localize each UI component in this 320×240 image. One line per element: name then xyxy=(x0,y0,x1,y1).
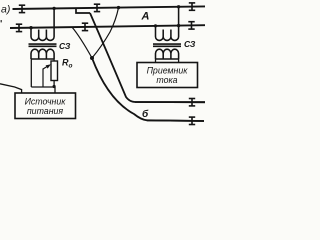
node dot T1 left terminal xyxy=(29,26,32,29)
svg-text:СЗ: СЗ xyxy=(184,39,196,49)
insulator top-middle xyxy=(94,4,100,12)
insulator B-upper-right xyxy=(189,98,195,106)
cable P2 to lower Б line xyxy=(92,58,204,121)
svg-text:Rо: Rо xyxy=(62,58,73,70)
wire secondary left down xyxy=(30,59,32,87)
box: Источник питания xyxy=(15,93,76,119)
node dot on top rail at branch xyxy=(117,6,120,9)
box: Приемник тока xyxy=(137,63,198,88)
svg-text:а): а) xyxy=(1,4,10,16)
svg-text:А: А xyxy=(141,11,150,23)
transformer T2 secondary winding xyxy=(156,49,179,59)
insulator bottom-right xyxy=(188,21,194,29)
insulator bottom-left xyxy=(16,24,22,32)
wire stub from top rail xyxy=(76,8,90,13)
svg-text:СЗ: СЗ xyxy=(59,41,71,51)
transformer T1 primary winding with terminals xyxy=(31,8,54,40)
wire secondary right to resistor xyxy=(53,59,55,61)
resistor Rо body xyxy=(51,61,58,81)
bottom rail xyxy=(10,25,205,28)
feed wire from left edge into source box xyxy=(0,84,22,94)
transformer T1 secondary winding xyxy=(31,49,54,59)
transformer T1 core xyxy=(29,43,57,45)
node dot T2 left terminal xyxy=(154,24,157,27)
transformer T2 primary winding with terminals xyxy=(156,7,179,41)
stray mark top-left xyxy=(1,20,2,22)
cable P2 from bottom rail xyxy=(72,27,92,58)
junction node of cables xyxy=(90,56,94,60)
wire into source box right xyxy=(54,87,56,93)
bottom collector wire xyxy=(31,86,55,88)
insulator bottom-middle xyxy=(82,23,88,31)
wire T2 secondary left down xyxy=(155,59,157,63)
insulator top-right xyxy=(189,3,195,11)
cable P1 to upper Б line xyxy=(90,13,205,102)
svg-text:тока: тока xyxy=(156,75,177,85)
resistor bottom wire xyxy=(53,81,55,88)
svg-text:б: б xyxy=(142,108,149,120)
top rail xyxy=(13,6,206,9)
node dot resistor bottom xyxy=(53,85,56,88)
node dot T2 right terminal on bottom rail xyxy=(177,24,180,27)
insulator top-left xyxy=(19,5,25,13)
node dot T2 right terminal on top rail xyxy=(177,5,180,8)
curved branch from top rail xyxy=(92,8,119,58)
wire T2 secondary right down xyxy=(178,59,180,63)
upper Б rail xyxy=(135,101,205,103)
transformer T2 core xyxy=(153,43,181,45)
lower Б rail xyxy=(147,119,204,122)
node dot T1 right terminal on top rail xyxy=(52,7,55,10)
insulator B-lower-right xyxy=(189,117,195,125)
wiper support wire xyxy=(42,69,44,88)
rheostat wiper arrow xyxy=(43,66,48,69)
svg-text:питания: питания xyxy=(27,106,64,116)
